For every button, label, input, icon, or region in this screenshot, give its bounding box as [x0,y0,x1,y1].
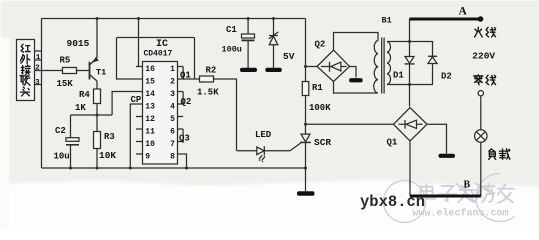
svg-text:13: 13 [145,103,155,112]
svg-text:12: 12 [145,115,155,124]
svg-text:B: B [464,180,471,191]
svg-text:CP: CP [131,95,142,105]
svg-text:R5: R5 [60,56,71,66]
svg-text:15: 15 [145,78,155,87]
svg-text:16: 16 [145,65,155,74]
svg-text:C2: C2 [55,126,66,136]
svg-text:1: 1 [36,54,41,62]
svg-text:7: 7 [170,140,175,149]
svg-text:D2: D2 [441,72,452,82]
svg-text:3: 3 [35,79,40,87]
svg-text:SCR: SCR [314,137,331,148]
svg-text:14: 14 [145,90,155,99]
svg-text:Q1: Q1 [180,71,191,81]
svg-text:R1: R1 [312,83,323,93]
svg-text:220V: 220V [472,51,495,62]
svg-text:9015: 9015 [67,38,90,49]
svg-text:9: 9 [145,153,150,162]
svg-text:IC: IC [156,39,168,50]
svg-text:ybx8.cn: ybx8.cn [360,193,425,211]
svg-text:1K: 1K [75,103,86,113]
svg-text:10K: 10K [99,150,116,161]
svg-text:Q2: Q2 [181,97,192,107]
svg-text:10: 10 [145,140,155,149]
svg-text:100u: 100u [222,45,242,55]
svg-text:4: 4 [170,103,175,112]
svg-text:6: 6 [170,128,175,137]
svg-text:2: 2 [170,78,175,87]
svg-text:10u: 10u [54,152,70,162]
svg-text:R4: R4 [79,90,90,100]
svg-text:A: A [459,6,468,18]
svg-text:C1: C1 [226,25,237,35]
svg-text:2: 2 [35,64,40,72]
svg-text:T1: T1 [96,68,106,78]
svg-text:R3: R3 [104,132,115,142]
svg-text:3: 3 [170,90,175,99]
svg-text:1.5K: 1.5K [197,88,219,98]
svg-text:11: 11 [145,128,155,137]
svg-text:D1: D1 [393,71,404,81]
svg-text:100K: 100K [309,103,331,113]
svg-text:15K: 15K [57,79,74,89]
svg-text:1: 1 [170,65,175,74]
svg-text:R2: R2 [206,66,217,76]
svg-text:LED: LED [255,130,272,140]
svg-text:Q3: Q3 [179,134,190,144]
svg-text:CD4017: CD4017 [144,50,173,59]
svg-text:B1: B1 [382,16,392,26]
svg-text:5V: 5V [283,51,295,62]
svg-text:Q2: Q2 [315,40,326,50]
svg-text:Q1: Q1 [387,138,398,148]
svg-text:8: 8 [170,153,175,162]
svg-text:www.elecfans.com: www.elecfans.com [413,208,509,220]
svg-text:5: 5 [170,115,175,124]
